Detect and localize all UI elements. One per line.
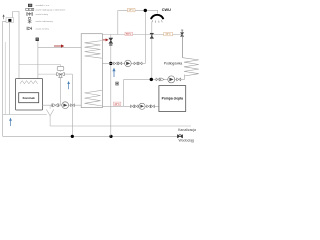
- svg-text:zasobnik c.w.u.: zasobnik c.w.u.: [36, 5, 51, 7]
- node water-cold riser: [109, 135, 112, 138]
- pipe to mixing actuator: [19, 65, 60, 67]
- node cwu tee: [144, 9, 147, 12]
- svg-text:35°C: 35°C: [165, 33, 171, 36]
- podlogowka supply pipe: [102, 34, 182, 36]
- water meter: [177, 134, 182, 138]
- thermostatic head end: [181, 30, 184, 36]
- floor heating drop: [182, 35, 184, 58]
- legend icon check valve: [27, 27, 32, 30]
- valve dhw left: [114, 62, 122, 65]
- legend icon boiler: [28, 4, 32, 7]
- svg-text:CWU: CWU: [162, 8, 171, 12]
- svg-text:45°C: 45°C: [129, 9, 135, 12]
- svg-text:Wodociąg: Wodociąg: [178, 139, 194, 143]
- actuator box: [57, 66, 64, 70]
- tan label podlogowka: [164, 32, 173, 36]
- svg-text:Kominek: Kominek: [23, 96, 36, 100]
- pipe valve right port: [65, 73, 73, 75]
- svg-text:55°C: 55°C: [126, 33, 132, 36]
- cold feed line A: [3, 114, 47, 116]
- svg-text:zawór kulowy: zawór kulowy: [36, 13, 49, 16]
- pump hp lower: [139, 103, 145, 109]
- legend icon safety valve: [28, 17, 32, 23]
- floor heating coil: [183, 58, 199, 76]
- pump dhw: [125, 60, 132, 67]
- sewer line: [50, 125, 191, 127]
- pipe valve left port: [38, 73, 56, 75]
- valve hp lower 2: [147, 105, 155, 108]
- water main line: [3, 135, 177, 137]
- wire riser x=5: [4, 42, 6, 115]
- cold water riser: [110, 35, 112, 137]
- svg-text:Podłogówka: Podłogówka: [164, 61, 183, 65]
- legend icon 3-way valve: [26, 8, 34, 10]
- pump hp upper: [168, 76, 175, 83]
- valve dhw right: [134, 62, 142, 65]
- blue arrow kominek riser: [67, 81, 70, 89]
- svg-text:Kanalizacja: Kanalizacja: [178, 128, 196, 132]
- dhw riser from podlogowka line: [117, 10, 119, 34]
- wire left riser x=2.6: [2, 21, 4, 136]
- flue sensor icon: [36, 38, 39, 41]
- blue arrow cold riser: [112, 68, 115, 77]
- hp supply pipe upper: [124, 75, 185, 80]
- wire to sensor box: [3, 20, 6, 22]
- valve on kominek pipe: [52, 104, 59, 108]
- valve hp upper 1: [156, 78, 164, 81]
- sensor square on riser: [116, 82, 119, 85]
- node riser-dhw: [109, 62, 112, 65]
- hp return pipe lower: [102, 105, 158, 107]
- legend icon ball valve: [27, 12, 33, 16]
- tundish funnel: [46, 109, 53, 126]
- wire sensor down to kominek: [37, 41, 39, 79]
- long riser x=72 down to water line: [71, 74, 73, 136]
- red temp label hp return: [114, 102, 121, 106]
- pump kominek circuit: [62, 102, 69, 109]
- valve hp upper 2: [177, 78, 181, 81]
- dhw pipe tank to cwu riser: [102, 10, 145, 63]
- red arrow tank top: [103, 38, 109, 41]
- svg-text:zawór trójdrogowy z siłownikie: zawór trójdrogowy z siłownikiem: [36, 9, 66, 12]
- safety discharge stub: [49, 105, 51, 109]
- blue arrow bottom left: [9, 118, 12, 126]
- dark valve on shower line: [150, 33, 154, 38]
- outdoor sensor arrow: [3, 14, 5, 19]
- temp label cwu line: [128, 8, 136, 12]
- buffer tank: [81, 34, 102, 108]
- red temp label podlogowka: [125, 32, 133, 36]
- pompa ciepla box: [159, 86, 186, 112]
- tank lower coil: [85, 90, 102, 106]
- node hp-shower: [150, 78, 153, 81]
- svg-text:zawór nadmiarowy: zawór nadmiarowy: [36, 20, 54, 23]
- kominek outer box: [16, 79, 43, 111]
- kominek coil: [20, 81, 38, 84]
- wire riser x=9.5: [9, 23, 11, 115]
- pipe kominek to tank lower: [43, 104, 82, 106]
- 3-way mixing valve: [57, 73, 65, 78]
- wire top corner to kominek: [13, 12, 19, 79]
- bridge riser: [123, 79, 125, 106]
- node water-kominek riser: [71, 135, 74, 138]
- svg-text:zawór zwrotny: zawór zwrotny: [36, 27, 50, 30]
- dark valve on riser top: [109, 38, 113, 45]
- pipe kominek supply to tank: [38, 47, 81, 49]
- svg-text:40°C: 40°C: [114, 103, 120, 106]
- svg-text:Pompa ciepła: Pompa ciepła: [162, 97, 183, 101]
- riser valve to pump line: [60, 78, 62, 106]
- shower feed line: [151, 22, 153, 80]
- shower spray: [152, 20, 162, 23]
- cwu distribution pipe: [118, 10, 158, 13]
- kominek inner box: [19, 93, 39, 103]
- valve hp lower 1: [131, 105, 139, 108]
- red flow arrow: [54, 44, 64, 47]
- shower arc: [151, 15, 163, 19]
- valve right of pump: [71, 104, 75, 107]
- sensor box with black square: [6, 18, 13, 23]
- tank upper coil: [85, 41, 102, 59]
